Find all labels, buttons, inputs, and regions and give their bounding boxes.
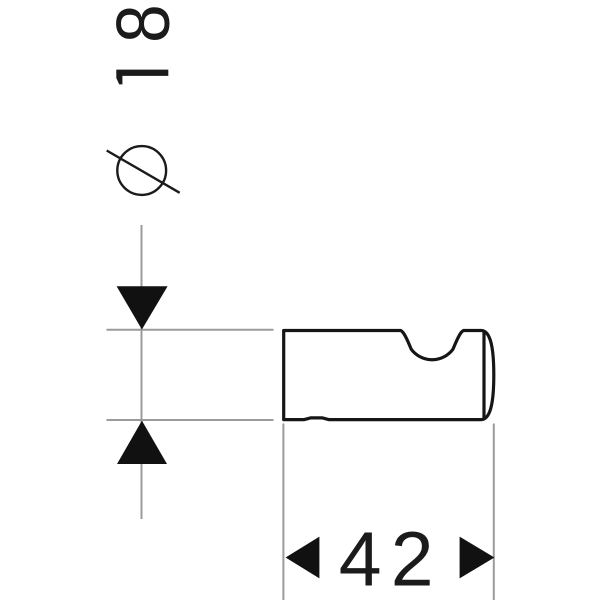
svg-text:42: 42 <box>339 517 443 600</box>
svg-text:8: 8 <box>102 4 186 43</box>
